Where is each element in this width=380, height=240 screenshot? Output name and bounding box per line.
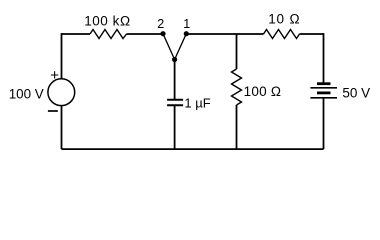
resistor 10 Ohm zigzag	[264, 30, 300, 39]
wire battery to bottom-right corner	[323, 98, 325, 149]
wire switch contact 1 to node	[186, 33, 236, 35]
wire left side bottom segment	[61, 106, 63, 150]
svg-text:+: +	[50, 67, 59, 84]
wire capacitor to bottom wire	[174, 105, 176, 149]
resistor 100 Ohm vertical zigzag	[232, 69, 242, 105]
capacitor 1 uF bottom plate	[167, 104, 183, 106]
svg-text:2: 2	[157, 17, 164, 31]
wire switch pole down to capacitor	[174, 60, 176, 100]
wire left side top segment	[61, 33, 63, 79]
wire 100 Ohm to bottom wire	[236, 105, 238, 149]
svg-text:50 V: 50 V	[342, 85, 370, 100]
svg-text:100 V: 100 V	[9, 86, 44, 101]
switch contact dot 1	[184, 31, 189, 36]
battery 50 V plate long upper	[310, 87, 337, 89]
svg-text:1: 1	[183, 17, 190, 31]
resistor 100 kOhm zigzag	[90, 30, 127, 39]
svg-text:100 Ω: 100 Ω	[244, 84, 282, 99]
wire top-left horizontal	[62, 33, 91, 35]
wire node down to 100 Ohm resistor	[236, 34, 238, 69]
switch contact dot 2	[160, 31, 165, 36]
wire 10 Ohm to top-right corner	[300, 33, 324, 35]
wire resistor to switch contact 2	[127, 33, 164, 35]
svg-text:10 Ω: 10 Ω	[268, 11, 300, 26]
wire node to 10 Ohm resistor	[237, 33, 264, 35]
wire bottom horizontal	[62, 148, 324, 150]
switch blade from contact 1	[175, 34, 187, 60]
battery 50 V plate long bottom	[310, 97, 337, 99]
svg-text:100 kΩ: 100 kΩ	[84, 14, 130, 29]
switch blade from contact 2	[163, 34, 175, 60]
svg-text:1 µF: 1 µF	[184, 95, 210, 110]
battery 50 V plate short top	[317, 82, 331, 85]
wire right side down to battery	[323, 33, 325, 82]
voltage source 100 V circle	[48, 79, 75, 106]
voltage source minus sign	[48, 110, 58, 112]
battery 50 V plate short lower	[317, 92, 331, 95]
capacitor 1 uF top plate	[167, 99, 183, 101]
switch pole dot	[172, 57, 177, 62]
